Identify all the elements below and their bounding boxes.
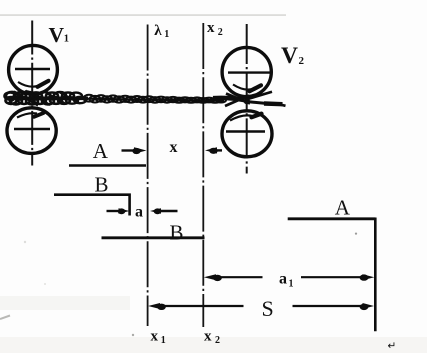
dimension a (right arrow) [150, 208, 161, 214]
strip dense band through V1 nip [7, 97, 88, 101]
svg-text:x: x [170, 139, 178, 156]
svg-text:x: x [207, 20, 215, 36]
svg-text:a: a [135, 204, 143, 221]
roller bottom-right rotation arrow [230, 115, 254, 120]
svg-text:x: x [151, 329, 159, 345]
svg-text:2: 2 [299, 55, 305, 67]
roller top-right (upper work roll, V2 stand) [222, 47, 271, 96]
svg-text:1: 1 [164, 29, 169, 40]
roller axis right (vertical centerline through V2 rollers) [246, 24, 248, 174]
svg-text:2: 2 [215, 335, 220, 346]
roller bottom-left rotation arrow [17, 113, 37, 117]
strip nip crossing at V2 stand [213, 98, 244, 100]
scan artifact: faint top rule [0, 14, 286, 16]
strip chain scribble V1 to V2 [84, 99, 224, 101]
step line A (left, underline) [69, 164, 146, 167]
svg-text:A: A [335, 195, 351, 219]
roller top-right rotation arrow [233, 85, 254, 90]
scan artifact: smudge bottom-left [0, 316, 10, 320]
roller bottom-left horizontal centerline [14, 128, 50, 130]
roller top-left horizontal centerline [15, 68, 50, 70]
roller top-left (upper work roll, V1 stand) [9, 45, 58, 94]
scan artifact: faint bottom band [0, 337, 427, 353]
svg-text:λ: λ [154, 23, 162, 39]
step line A (right) with extension down [288, 217, 376, 220]
roller top-right horizontal centerline [228, 71, 271, 73]
svg-text:2: 2 [218, 27, 223, 38]
svg-text:B: B [170, 221, 184, 245]
roller bottom-right horizontal centerline [226, 130, 265, 133]
svg-text:1: 1 [64, 34, 69, 45]
roller bottom-left (lower work roll, V1 stand) [7, 108, 56, 154]
roller axis left (vertical centerline through V1 rollers) [31, 21, 33, 166]
centerline x2 (vertical dash-dot reference line) [202, 23, 204, 327]
strip (scribbled rolled stock between the rolls) [5, 91, 286, 107]
svg-text:x: x [204, 329, 212, 345]
arrow x toward x2 line [205, 147, 217, 153]
svg-text:B: B [95, 173, 109, 197]
roller bottom-right (lower work roll, V2 stand) [222, 111, 272, 157]
centerline x1 (vertical dash-dot reference line) [147, 25, 149, 327]
strip tail after V2 stand [246, 92, 272, 100]
roller top-left rotation arrow [18, 82, 41, 87]
dimension a1 (from x2 line to right extension line) [204, 274, 216, 280]
svg-text:V: V [49, 23, 65, 47]
dimension S (from x1 line to right extension line) [148, 303, 160, 309]
svg-text:↵: ↵ [388, 341, 397, 352]
arrow A toward x1 line [122, 149, 137, 151]
svg-text:V: V [281, 43, 298, 69]
svg-text:1: 1 [289, 279, 294, 290]
svg-text:A: A [93, 139, 109, 163]
svg-text:1: 1 [161, 335, 166, 346]
dimension a (left arrow) [107, 210, 122, 212]
svg-text:S: S [262, 296, 274, 321]
svg-text:a: a [279, 271, 287, 288]
step line B (second) [102, 236, 205, 239]
step line B (left) [54, 195, 130, 216]
